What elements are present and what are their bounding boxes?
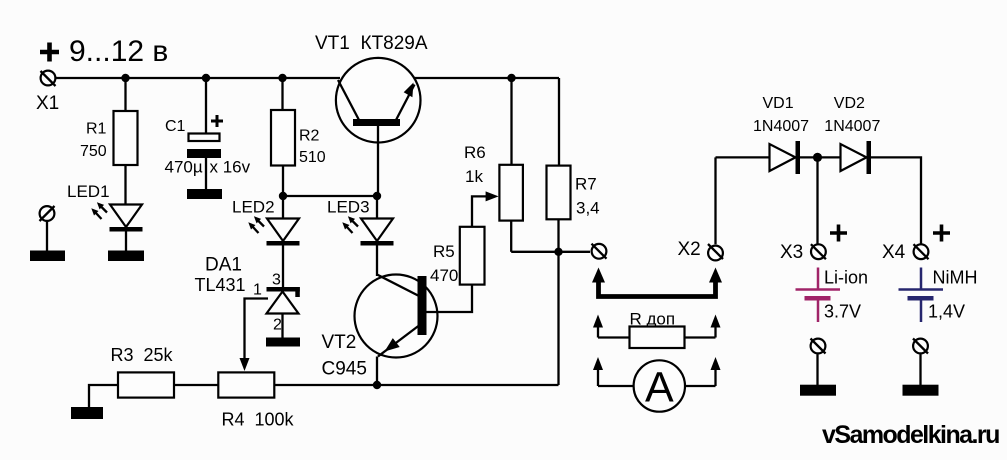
terminal X1	[41, 71, 56, 86]
diode VD1	[770, 141, 801, 174]
terminal X1 negative	[40, 206, 55, 221]
wire X3 down	[816, 157, 818, 245]
svg-text:vSamodelkina.ru: vSamodelkina.ru	[822, 421, 999, 449]
wire C1 to ground	[205, 158, 207, 190]
probe link with resistor R dop	[593, 315, 721, 349]
junction node LED2	[279, 192, 287, 200]
svg-text:VT1: VT1	[315, 33, 350, 54]
wire X2 up to diode rail	[714, 157, 716, 244]
wire: +V rail left	[56, 77, 341, 79]
svg-text:1N4007: 1N4007	[824, 118, 880, 135]
svg-text:LED2: LED2	[232, 198, 275, 217]
terminal X2	[708, 244, 723, 260]
terminal X4 return	[913, 339, 928, 354]
svg-text:9...12 в: 9...12 в	[69, 35, 168, 68]
svg-text:A: A	[645, 364, 674, 412]
LED LED2	[248, 216, 299, 245]
wire diode rail to X4	[871, 157, 921, 245]
junction node LED3	[373, 192, 381, 200]
svg-text:VD2: VD2	[834, 95, 865, 112]
svg-text:TL431: TL431	[195, 275, 246, 295]
junction VT2 emitter	[373, 381, 381, 389]
ground bar under DA1	[266, 338, 300, 347]
terminal X3	[811, 244, 826, 259]
LED LED3	[342, 216, 393, 245]
svg-text:X2: X2	[678, 239, 701, 260]
wire pin1 to R4 wiper	[245, 299, 269, 359]
ground under X3 return	[800, 385, 836, 396]
ground under X1 negative	[30, 251, 65, 262]
svg-text:R1: R1	[86, 121, 107, 138]
svg-text:R3 25k: R3 25k	[111, 345, 174, 365]
wire R3 to R4	[174, 384, 218, 386]
svg-text:510: 510	[299, 149, 326, 166]
svg-text:1k: 1k	[465, 167, 483, 186]
capacitor C1	[187, 134, 221, 159]
svg-text:R2: R2	[299, 128, 320, 145]
wire R2 top	[281, 78, 283, 110]
wire: +V rail right of VT1	[414, 77, 559, 79]
LED LED1	[91, 202, 142, 231]
wire R5 wiper to R6	[472, 196, 486, 226]
wire between diodes	[800, 156, 841, 158]
svg-text:3: 3	[272, 272, 281, 289]
svg-text:1N4007: 1N4007	[753, 118, 809, 135]
svg-text:DA1: DA1	[205, 255, 242, 276]
wire LED3 to VT2 collector	[376, 245, 378, 276]
svg-text:Li-ion: Li-ion	[824, 268, 868, 288]
thick probe link to X2	[592, 268, 722, 297]
wire R2 bottom	[282, 166, 284, 197]
junction C1 top	[202, 74, 210, 82]
battery G1 Li-ion	[796, 268, 841, 323]
svg-text:1,4V: 1,4V	[928, 302, 965, 322]
ground under C1	[187, 189, 222, 199]
svg-text:VD1: VD1	[763, 95, 794, 112]
transistor VT1	[336, 58, 421, 196]
junction R1 top	[121, 74, 129, 82]
wire R1 to LED1	[124, 165, 126, 205]
wire LED2 top	[282, 196, 284, 218]
diode VD2	[841, 141, 872, 174]
svg-text:VT2: VT2	[322, 332, 357, 353]
wire R3 left to ground	[89, 385, 118, 407]
wire terminal to ground	[46, 221, 48, 251]
resistor R2	[271, 110, 295, 166]
junction R6 top	[507, 74, 515, 82]
wire X3 return to ground	[816, 354, 818, 385]
wire X4 return to ground	[919, 354, 921, 385]
wire LED3 top	[376, 196, 378, 218]
svg-text:X3: X3	[780, 242, 803, 263]
label C1 plus	[211, 115, 223, 127]
svg-text:R5: R5	[433, 242, 455, 261]
svg-text:R6: R6	[464, 143, 486, 162]
ground under X4 return	[903, 385, 939, 396]
svg-text:R7: R7	[575, 175, 597, 194]
ground under R3	[71, 407, 103, 419]
junction X3 node	[813, 153, 822, 162]
wire C1 top	[205, 78, 207, 134]
wire R6 top	[510, 78, 512, 165]
wire bottom rail	[274, 384, 558, 386]
terminal output plus	[592, 244, 607, 259]
svg-text:C1: C1	[165, 118, 186, 135]
terminal X3 return	[811, 339, 826, 354]
svg-text:1: 1	[253, 282, 262, 299]
svg-text:470: 470	[430, 266, 458, 285]
wire R1 top	[124, 78, 126, 111]
svg-text:NiMH: NiMH	[933, 268, 978, 288]
wire LED2 to DA1	[282, 245, 284, 287]
resistor R7	[547, 166, 571, 220]
shunt regulator DA1 TL431	[267, 287, 300, 338]
svg-text:X1: X1	[36, 93, 59, 114]
transistor VT2	[355, 275, 438, 386]
wire R6 bottom	[510, 221, 512, 252]
wire R7 top	[558, 78, 560, 166]
wire output down to bottom rail	[557, 252, 559, 385]
potentiometer R6	[499, 165, 523, 221]
battery G2 NiMH	[899, 268, 944, 323]
wire LED1 to ground	[125, 231, 127, 251]
wire R7 bottom	[557, 219, 559, 252]
resistor R1	[114, 111, 138, 165]
terminal X4	[914, 244, 929, 259]
wire VT2 base to R5	[427, 285, 473, 312]
svg-text:X4: X4	[882, 242, 906, 263]
label X4 plus	[933, 225, 950, 242]
wire diode rail	[716, 156, 770, 158]
potentiometer R4	[218, 372, 274, 397]
svg-text:R4 100k: R4 100k	[222, 410, 295, 430]
label X3 plus	[830, 225, 847, 242]
svg-text:C945: C945	[322, 359, 367, 380]
svg-text:3,4: 3,4	[576, 199, 600, 218]
wire base node R2 to VT1	[283, 195, 377, 197]
ammeter A probe link	[593, 357, 721, 412]
svg-text:x 16v: x 16v	[210, 158, 251, 177]
svg-text:750: 750	[80, 143, 107, 160]
ground under LED1	[108, 251, 144, 262]
wire output node	[511, 251, 590, 253]
resistor R5	[460, 227, 485, 285]
svg-text:КТ829А: КТ829А	[361, 33, 428, 54]
svg-text:470µ: 470µ	[165, 158, 203, 177]
junction R2 top	[278, 74, 286, 82]
svg-text:LED3: LED3	[327, 198, 370, 217]
label +9...12V supply	[40, 35, 168, 68]
junction output	[554, 248, 562, 256]
resistor R3	[118, 372, 174, 397]
svg-text:LED1: LED1	[67, 182, 110, 201]
svg-text:2: 2	[273, 317, 282, 334]
svg-text:3.7V: 3.7V	[824, 302, 861, 322]
